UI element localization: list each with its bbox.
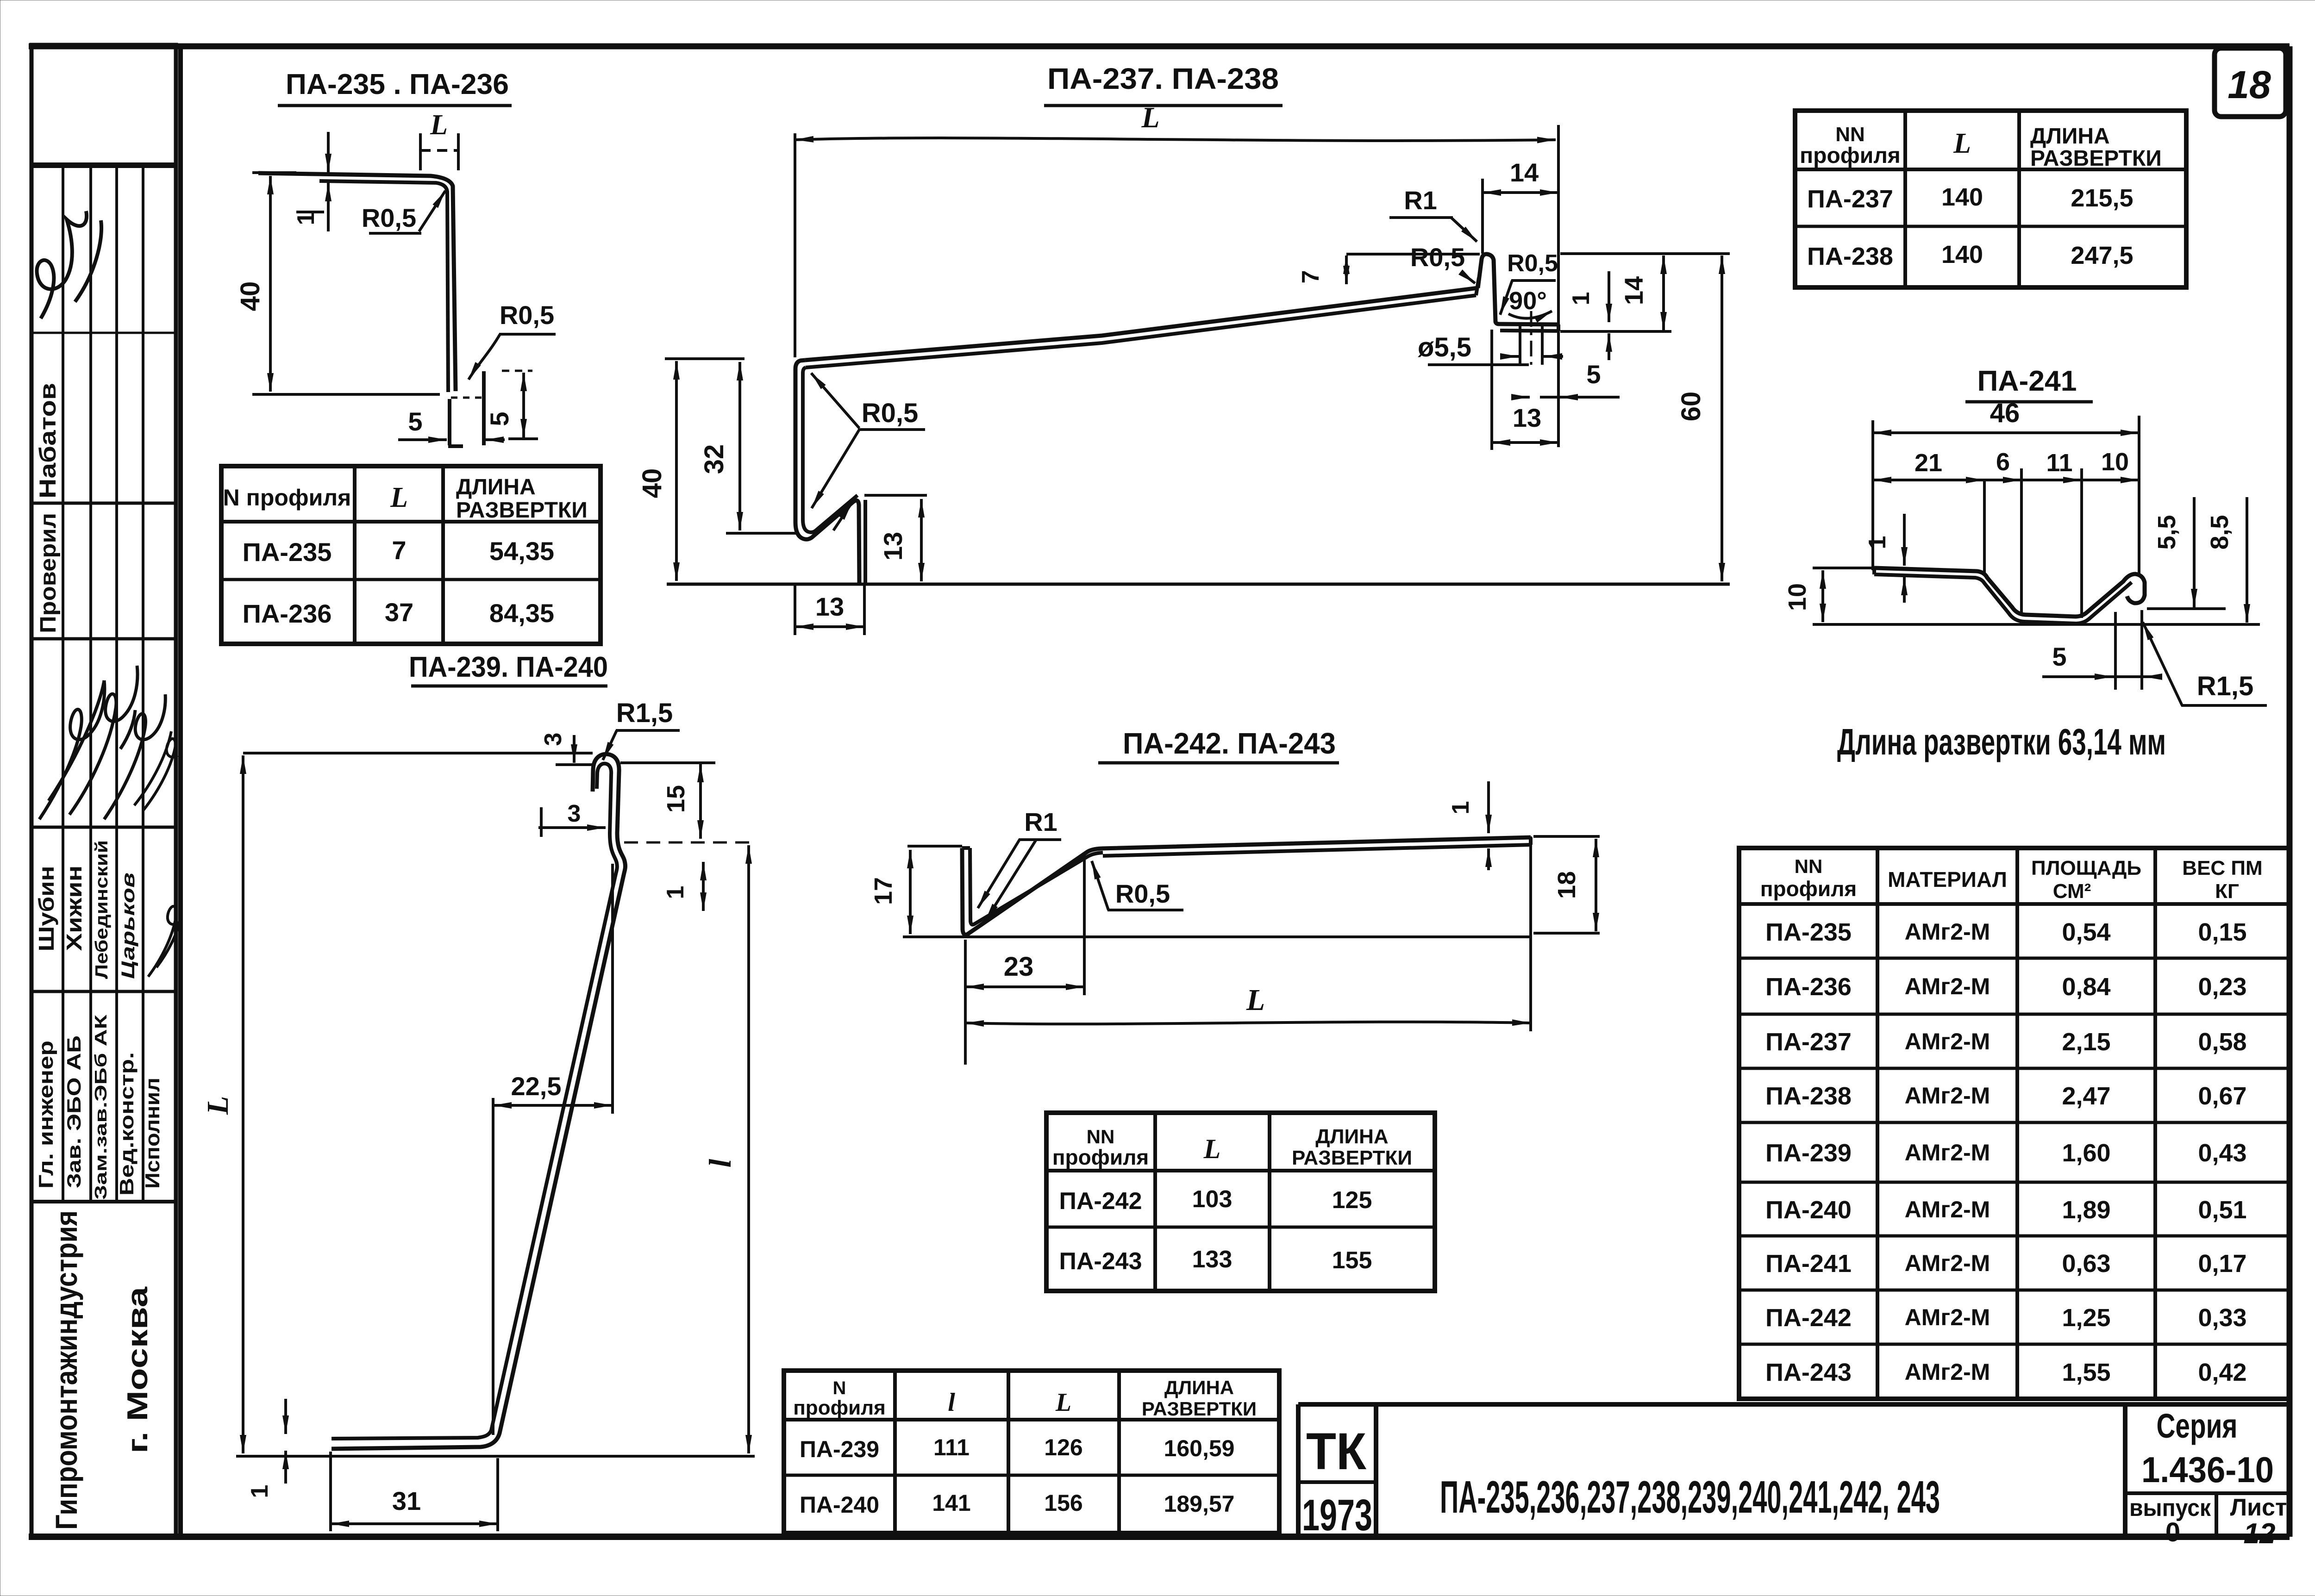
dim 1	[1903, 514, 1906, 566]
svg-text:13: 13	[1513, 403, 1541, 432]
svg-text:13: 13	[815, 592, 844, 621]
svg-text:60: 60	[1676, 392, 1706, 422]
svg-text:ПА-235 . ПА-236: ПА-235 . ПА-236	[286, 69, 509, 100]
svg-text:АМг2-М: АМг2-М	[1905, 1304, 1990, 1330]
svg-text:ПА-239. ПА-240: ПА-239. ПА-240	[409, 651, 608, 683]
svg-text:103: 103	[1192, 1186, 1233, 1213]
small arrow at hook fold	[833, 503, 852, 530]
svg-text:1: 1	[662, 886, 689, 899]
svg-text:0,63: 0,63	[2062, 1250, 2110, 1278]
baseline	[1813, 623, 2260, 626]
svg-text:РАЗВЕРТКИ: РАЗВЕРТКИ	[1142, 1398, 1257, 1420]
svg-text:R1,5: R1,5	[616, 698, 673, 728]
profile PA-237 left hook outer	[795, 360, 859, 584]
svg-text:1.436-10: 1.436-10	[2141, 1449, 2274, 1490]
svg-text:22,5: 22,5	[511, 1072, 562, 1101]
svg-text:32: 32	[699, 444, 729, 474]
svg-text:1: 1	[246, 1485, 273, 1498]
svg-text:ТК: ТК	[1306, 1422, 1367, 1480]
svg-text:14: 14	[1510, 158, 1539, 187]
svg-text:189,57: 189,57	[1164, 1491, 1235, 1517]
svg-text:3: 3	[568, 800, 581, 827]
svg-text:156: 156	[1044, 1490, 1082, 1516]
svg-text:0,84: 0,84	[2062, 973, 2110, 1001]
dim l right	[747, 845, 750, 1453]
svg-text:NN: NN	[1795, 855, 1823, 877]
svg-text:ПА-236: ПА-236	[1765, 973, 1852, 1001]
svg-text:13: 13	[878, 532, 907, 561]
dim L top (long)	[795, 138, 1556, 141]
svg-text:31: 31	[392, 1486, 421, 1515]
svg-text:215,5: 215,5	[2071, 184, 2133, 212]
svg-text:40: 40	[235, 281, 265, 312]
svg-text:РАЗВЕРТКИ: РАЗВЕРТКИ	[1292, 1147, 1412, 1169]
svg-text:141: 141	[932, 1490, 970, 1516]
svg-text:ПА-235: ПА-235	[1765, 918, 1852, 946]
svg-text:L: L	[201, 1096, 235, 1115]
svg-text:23: 23	[1004, 952, 1034, 982]
svg-text:1,89: 1,89	[2062, 1196, 2110, 1224]
svg-text:7: 7	[392, 536, 406, 565]
svg-text:125: 125	[1332, 1187, 1372, 1214]
svg-text:17: 17	[870, 877, 897, 905]
dim 1 PA242	[1487, 781, 1490, 833]
svg-text:Зам.зав.ЭБб АК: Зам.зав.ЭБб АК	[91, 1014, 110, 1200]
svg-text:0,42: 0,42	[2198, 1359, 2246, 1386]
profile PA-235 foot	[448, 399, 451, 445]
svg-text:Царьков: Царьков	[118, 873, 138, 979]
svg-text:5: 5	[2052, 642, 2066, 671]
svg-text:РАЗВЕРТКИ: РАЗВЕРТКИ	[2030, 146, 2162, 171]
svg-text:40: 40	[637, 468, 667, 499]
svg-text:1,25: 1,25	[2062, 1304, 2110, 1332]
svg-text:Набатов: Набатов	[35, 383, 61, 499]
svg-text:111: 111	[933, 1434, 970, 1460]
svg-text:R0,5: R0,5	[500, 300, 554, 330]
dim 32	[738, 362, 741, 530]
svg-text:L: L	[1203, 1134, 1221, 1164]
dim 17	[909, 850, 912, 934]
svg-text:18: 18	[2227, 63, 2271, 106]
svg-text:14: 14	[1619, 276, 1648, 305]
table PA-237/238	[1795, 111, 2186, 287]
table PA-235/236	[221, 466, 601, 644]
svg-text:N: N	[833, 1378, 846, 1398]
svg-text:ПА-243: ПА-243	[1059, 1248, 1142, 1275]
svg-text:18: 18	[1553, 871, 1581, 899]
dim 60	[1721, 256, 1723, 581]
svg-text:0: 0	[2165, 1517, 2180, 1547]
dim 1 top thickness	[327, 132, 330, 172]
svg-text:ПА-240: ПА-240	[1765, 1196, 1852, 1224]
svg-text:0,51: 0,51	[2198, 1196, 2246, 1224]
strip column lines	[62, 165, 64, 1202]
svg-text:0,33: 0,33	[2198, 1304, 2246, 1332]
svg-text:155: 155	[1332, 1247, 1372, 1274]
svg-text:140: 140	[1941, 241, 1983, 268]
svg-text:R0,5: R0,5	[1115, 879, 1170, 908]
strip row lines	[31, 332, 176, 334]
profile PA-241 top surface	[1874, 568, 2145, 617]
svg-text:Исполнил: Исполнил	[141, 1078, 164, 1189]
svg-text:ПА-242: ПА-242	[1059, 1188, 1142, 1215]
svg-text:L: L	[1953, 128, 1971, 159]
svg-text:ДЛИНА: ДЛИНА	[2030, 124, 2110, 149]
hole center dash-dot	[1530, 311, 1533, 370]
svg-text:5: 5	[1586, 360, 1601, 389]
svg-text:АМг2-М: АМг2-М	[1905, 1250, 1990, 1276]
svg-text:МАТЕРИАЛ: МАТЕРИАЛ	[1888, 867, 2007, 892]
svg-text:1: 1	[1568, 292, 1595, 305]
svg-text:R0,5: R0,5	[1410, 243, 1465, 272]
svg-text:Гл. инженер: Гл. инженер	[35, 1041, 57, 1189]
svg-text:Зав. ЭБО АБ: Зав. ЭБО АБ	[63, 1035, 85, 1188]
svg-text:0,17: 0,17	[2198, 1250, 2246, 1278]
svg-text:ПА-242. ПА-243: ПА-242. ПА-243	[1123, 727, 1336, 760]
svg-text:1,60: 1,60	[2062, 1139, 2110, 1167]
strip top box bottom line	[31, 162, 176, 168]
svg-text:ПЛОЩАДЬ: ПЛОЩАДЬ	[2031, 857, 2141, 879]
svg-text:126: 126	[1044, 1434, 1082, 1460]
svg-text:10: 10	[2101, 448, 2129, 476]
svg-text:АМг2-М: АМг2-М	[1905, 1359, 1990, 1385]
svg-text:5,5: 5,5	[2153, 515, 2181, 549]
baseline	[667, 583, 1730, 586]
svg-text:Проверил: Проверил	[36, 513, 61, 633]
dim 7 small	[1345, 256, 1348, 284]
svg-text:R0,5: R0,5	[362, 203, 416, 232]
svg-text:0,54: 0,54	[2062, 918, 2110, 946]
svg-text:1: 1	[293, 212, 319, 225]
svg-text:15: 15	[662, 785, 690, 813]
svg-text:ПА-237. ПА-238: ПА-237. ПА-238	[1047, 62, 1279, 95]
svg-text:ø5,5: ø5,5	[1418, 332, 1471, 362]
svg-text:Хижин: Хижин	[62, 866, 86, 951]
svg-text:NN: NN	[1087, 1126, 1115, 1147]
svg-text:37: 37	[385, 598, 413, 627]
page number box 18	[2215, 48, 2286, 117]
svg-text:11: 11	[2046, 449, 2072, 477]
signature top cell	[37, 211, 102, 318]
svg-text:5: 5	[485, 411, 514, 426]
svg-text:ПА-243: ПА-243	[1765, 1359, 1852, 1386]
svg-text:ПА-239: ПА-239	[1765, 1139, 1852, 1167]
svg-text:СМ²: СМ²	[2053, 880, 2091, 903]
dim 40 left	[269, 176, 272, 392]
svg-text:ДЛИНА: ДЛИНА	[456, 475, 536, 499]
profile PA-242 outline	[962, 837, 1531, 935]
series box	[2123, 1404, 2127, 1537]
svg-text:140: 140	[1941, 183, 1983, 211]
svg-text:ПА-236: ПА-236	[243, 599, 332, 628]
dim 1 right arm thickness	[1608, 271, 1610, 322]
svg-text:профиля: профиля	[1760, 877, 1857, 901]
svg-text:8,5: 8,5	[2206, 515, 2234, 549]
svg-text:ПА-242: ПА-242	[1765, 1304, 1852, 1332]
svg-text:1: 1	[1864, 536, 1891, 549]
svg-text:R1,5: R1,5	[2197, 671, 2254, 701]
dim 13 hook vertical	[920, 499, 923, 581]
sheet frame	[29, 44, 2290, 50]
svg-text:КГ: КГ	[2215, 880, 2239, 903]
svg-text:12: 12	[2244, 1518, 2276, 1550]
svg-text:5: 5	[408, 407, 422, 436]
svg-text:247,5: 247,5	[2071, 242, 2133, 269]
svg-text:АМг2-М: АМг2-М	[1905, 1140, 1990, 1166]
dashed extension at jog	[624, 842, 756, 844]
svg-text:ПА-237: ПА-237	[1807, 185, 1893, 213]
dim 5 right	[522, 373, 525, 437]
profile PA-241 bottom surface	[1874, 574, 2132, 623]
svg-text:46: 46	[1990, 398, 2020, 428]
svg-text:84,35: 84,35	[489, 598, 554, 628]
svg-text:ВЕС ПМ: ВЕС ПМ	[2182, 857, 2262, 879]
svg-text:профиля: профиля	[793, 1396, 886, 1419]
svg-text:21: 21	[1915, 449, 1942, 477]
dim 18 PA242	[1595, 839, 1597, 931]
svg-text:профиля: профиля	[1052, 1145, 1149, 1169]
dim 1 (below 15)	[702, 862, 705, 911]
svg-text:l: l	[702, 1159, 738, 1167]
svg-text:10: 10	[1783, 583, 1811, 611]
baseline extension	[236, 1455, 755, 1458]
dim L left	[242, 755, 244, 1453]
svg-text:ПА-239: ПА-239	[800, 1436, 879, 1462]
profile PA-239 outline inner	[332, 764, 617, 1439]
svg-text:54,35: 54,35	[489, 536, 554, 566]
svg-text:160,59: 160,59	[1164, 1435, 1235, 1461]
profile PA-239 outline outer	[332, 754, 626, 1449]
svg-text:6: 6	[1996, 448, 2010, 476]
svg-text:ДЛИНА: ДЛИНА	[1315, 1125, 1388, 1148]
left title strip outer	[31, 45, 176, 1537]
svg-text:ПА-240: ПА-240	[800, 1492, 879, 1518]
baseline PA-242	[903, 935, 1531, 938]
svg-text:ПА-238: ПА-238	[1765, 1082, 1852, 1110]
profile right lip and arm	[1478, 254, 1558, 324]
dim 40	[675, 361, 678, 581]
svg-text:АМг2-М: АМг2-М	[1905, 1083, 1990, 1109]
svg-text:ПА-237: ПА-237	[1765, 1028, 1852, 1056]
svg-text:133: 133	[1192, 1246, 1233, 1273]
dim 15	[699, 764, 702, 839]
svg-text:l: l	[948, 1388, 955, 1417]
svg-text:ПА-235,236,237,238,239,240,241: ПА-235,236,237,238,239,240,241,242, 243	[1440, 1471, 1940, 1522]
svg-text:Вед.констр.: Вед.констр.	[116, 1052, 138, 1196]
signatures block	[39, 680, 105, 819]
svg-text:Серия: Серия	[2157, 1407, 2238, 1445]
dim 14 right	[1662, 256, 1665, 330]
svg-text:Гипромонтажиндустрия: Гипромонтажиндустрия	[49, 1210, 83, 1530]
profile PA-235 outline	[258, 173, 456, 391]
svg-text:3: 3	[540, 733, 567, 746]
svg-text:L: L	[1055, 1388, 1071, 1417]
svg-text:ПА-241: ПА-241	[1977, 365, 2077, 397]
profile PA-237 left hook inner	[803, 368, 857, 532]
svg-text:R0,5: R0,5	[1507, 250, 1558, 277]
dim L top	[419, 133, 422, 170]
svg-text:7: 7	[1297, 270, 1324, 284]
svg-text:профиля: профиля	[1800, 143, 1901, 168]
svg-text:R0,5: R0,5	[862, 398, 919, 428]
svg-text:ПА-238: ПА-238	[1807, 243, 1893, 270]
svg-text:Лист: Лист	[2230, 1494, 2287, 1521]
svg-text:Длина развертки 63,14 мм: Длина развертки 63,14 мм	[1837, 721, 2166, 762]
svg-text:1973: 1973	[1302, 1490, 1372, 1540]
svg-text:г. Москва: г. Москва	[122, 1286, 154, 1453]
dim 1 bottom left	[284, 1399, 287, 1434]
svg-text:ДЛИНА: ДЛИНА	[1164, 1377, 1234, 1398]
svg-text:L: L	[430, 109, 448, 141]
svg-text:РАЗВЕРТКИ: РАЗВЕРТКИ	[456, 498, 588, 523]
svg-text:0,15: 0,15	[2198, 918, 2246, 946]
svg-text:Шубин: Шубин	[34, 866, 58, 952]
svg-text:Лебединский: Лебединский	[92, 840, 112, 979]
svg-text:АМг2-М: АМг2-М	[1905, 1197, 1990, 1222]
svg-text:0,67: 0,67	[2198, 1082, 2246, 1110]
svg-text:L: L	[1141, 101, 1159, 134]
svg-text:NN: NN	[1835, 123, 1865, 146]
svg-text:1: 1	[1447, 801, 1474, 815]
svg-text:АМг2-М: АМг2-М	[1905, 973, 1990, 999]
profile PA-237 web (double line)	[805, 288, 1478, 360]
dim 8,5	[2246, 497, 2248, 623]
svg-text:1,55: 1,55	[2062, 1359, 2110, 1386]
svg-text:2,47: 2,47	[2062, 1082, 2110, 1110]
dim 10 left	[1821, 570, 1824, 622]
dim 5,5	[2193, 497, 2196, 607]
table PA-239/240	[784, 1371, 1279, 1533]
svg-text:ПА-241: ПА-241	[1765, 1250, 1852, 1278]
svg-text:90°: 90°	[1509, 287, 1547, 315]
svg-text:R1: R1	[1404, 186, 1437, 215]
svg-text:L: L	[1246, 983, 1265, 1017]
svg-text:АМг2-М: АМг2-М	[1905, 919, 1990, 945]
svg-text:0,23: 0,23	[2198, 973, 2246, 1001]
svg-text:R1: R1	[1024, 807, 1057, 836]
svg-text:0,58: 0,58	[2198, 1028, 2246, 1056]
svg-text:L: L	[390, 482, 408, 513]
svg-text:2,15: 2,15	[2062, 1028, 2110, 1056]
svg-text:0,43: 0,43	[2198, 1139, 2246, 1167]
table PA-242/243	[1046, 1113, 1435, 1291]
svg-text:N профиля: N профиля	[223, 485, 351, 511]
svg-text:ПА-235: ПА-235	[243, 537, 332, 567]
svg-text:АМг2-М: АМг2-М	[1905, 1029, 1990, 1054]
